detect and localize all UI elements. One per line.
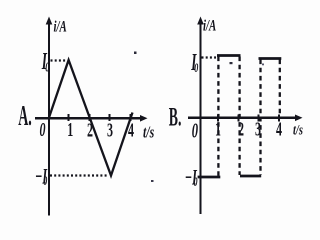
svg-text:2: 2 <box>87 118 93 141</box>
svg-text:4: 4 <box>128 118 134 141</box>
svg-text:1: 1 <box>67 118 73 141</box>
svg-text:A.: A. <box>18 100 32 132</box>
svg-text:0: 0 <box>194 61 198 75</box>
svg-text:0: 0 <box>192 119 199 142</box>
svg-text:0: 0 <box>194 175 198 189</box>
svg-text:3: 3 <box>107 118 113 141</box>
svg-text:t/s: t/s <box>293 121 303 138</box>
svg-text:i/A: i/A <box>54 17 67 35</box>
svg-text:4: 4 <box>276 117 282 140</box>
svg-text:0: 0 <box>40 118 46 141</box>
svg-text:0: 0 <box>43 174 47 188</box>
svg-text:t/s: t/s <box>143 124 154 143</box>
svg-text:2: 2 <box>238 117 244 140</box>
svg-text:3: 3 <box>255 117 261 140</box>
svg-text:0: 0 <box>45 59 49 75</box>
svg-text:i/A: i/A <box>203 16 216 34</box>
svg-text:1: 1 <box>215 117 221 140</box>
svg-text:B.: B. <box>169 103 182 132</box>
